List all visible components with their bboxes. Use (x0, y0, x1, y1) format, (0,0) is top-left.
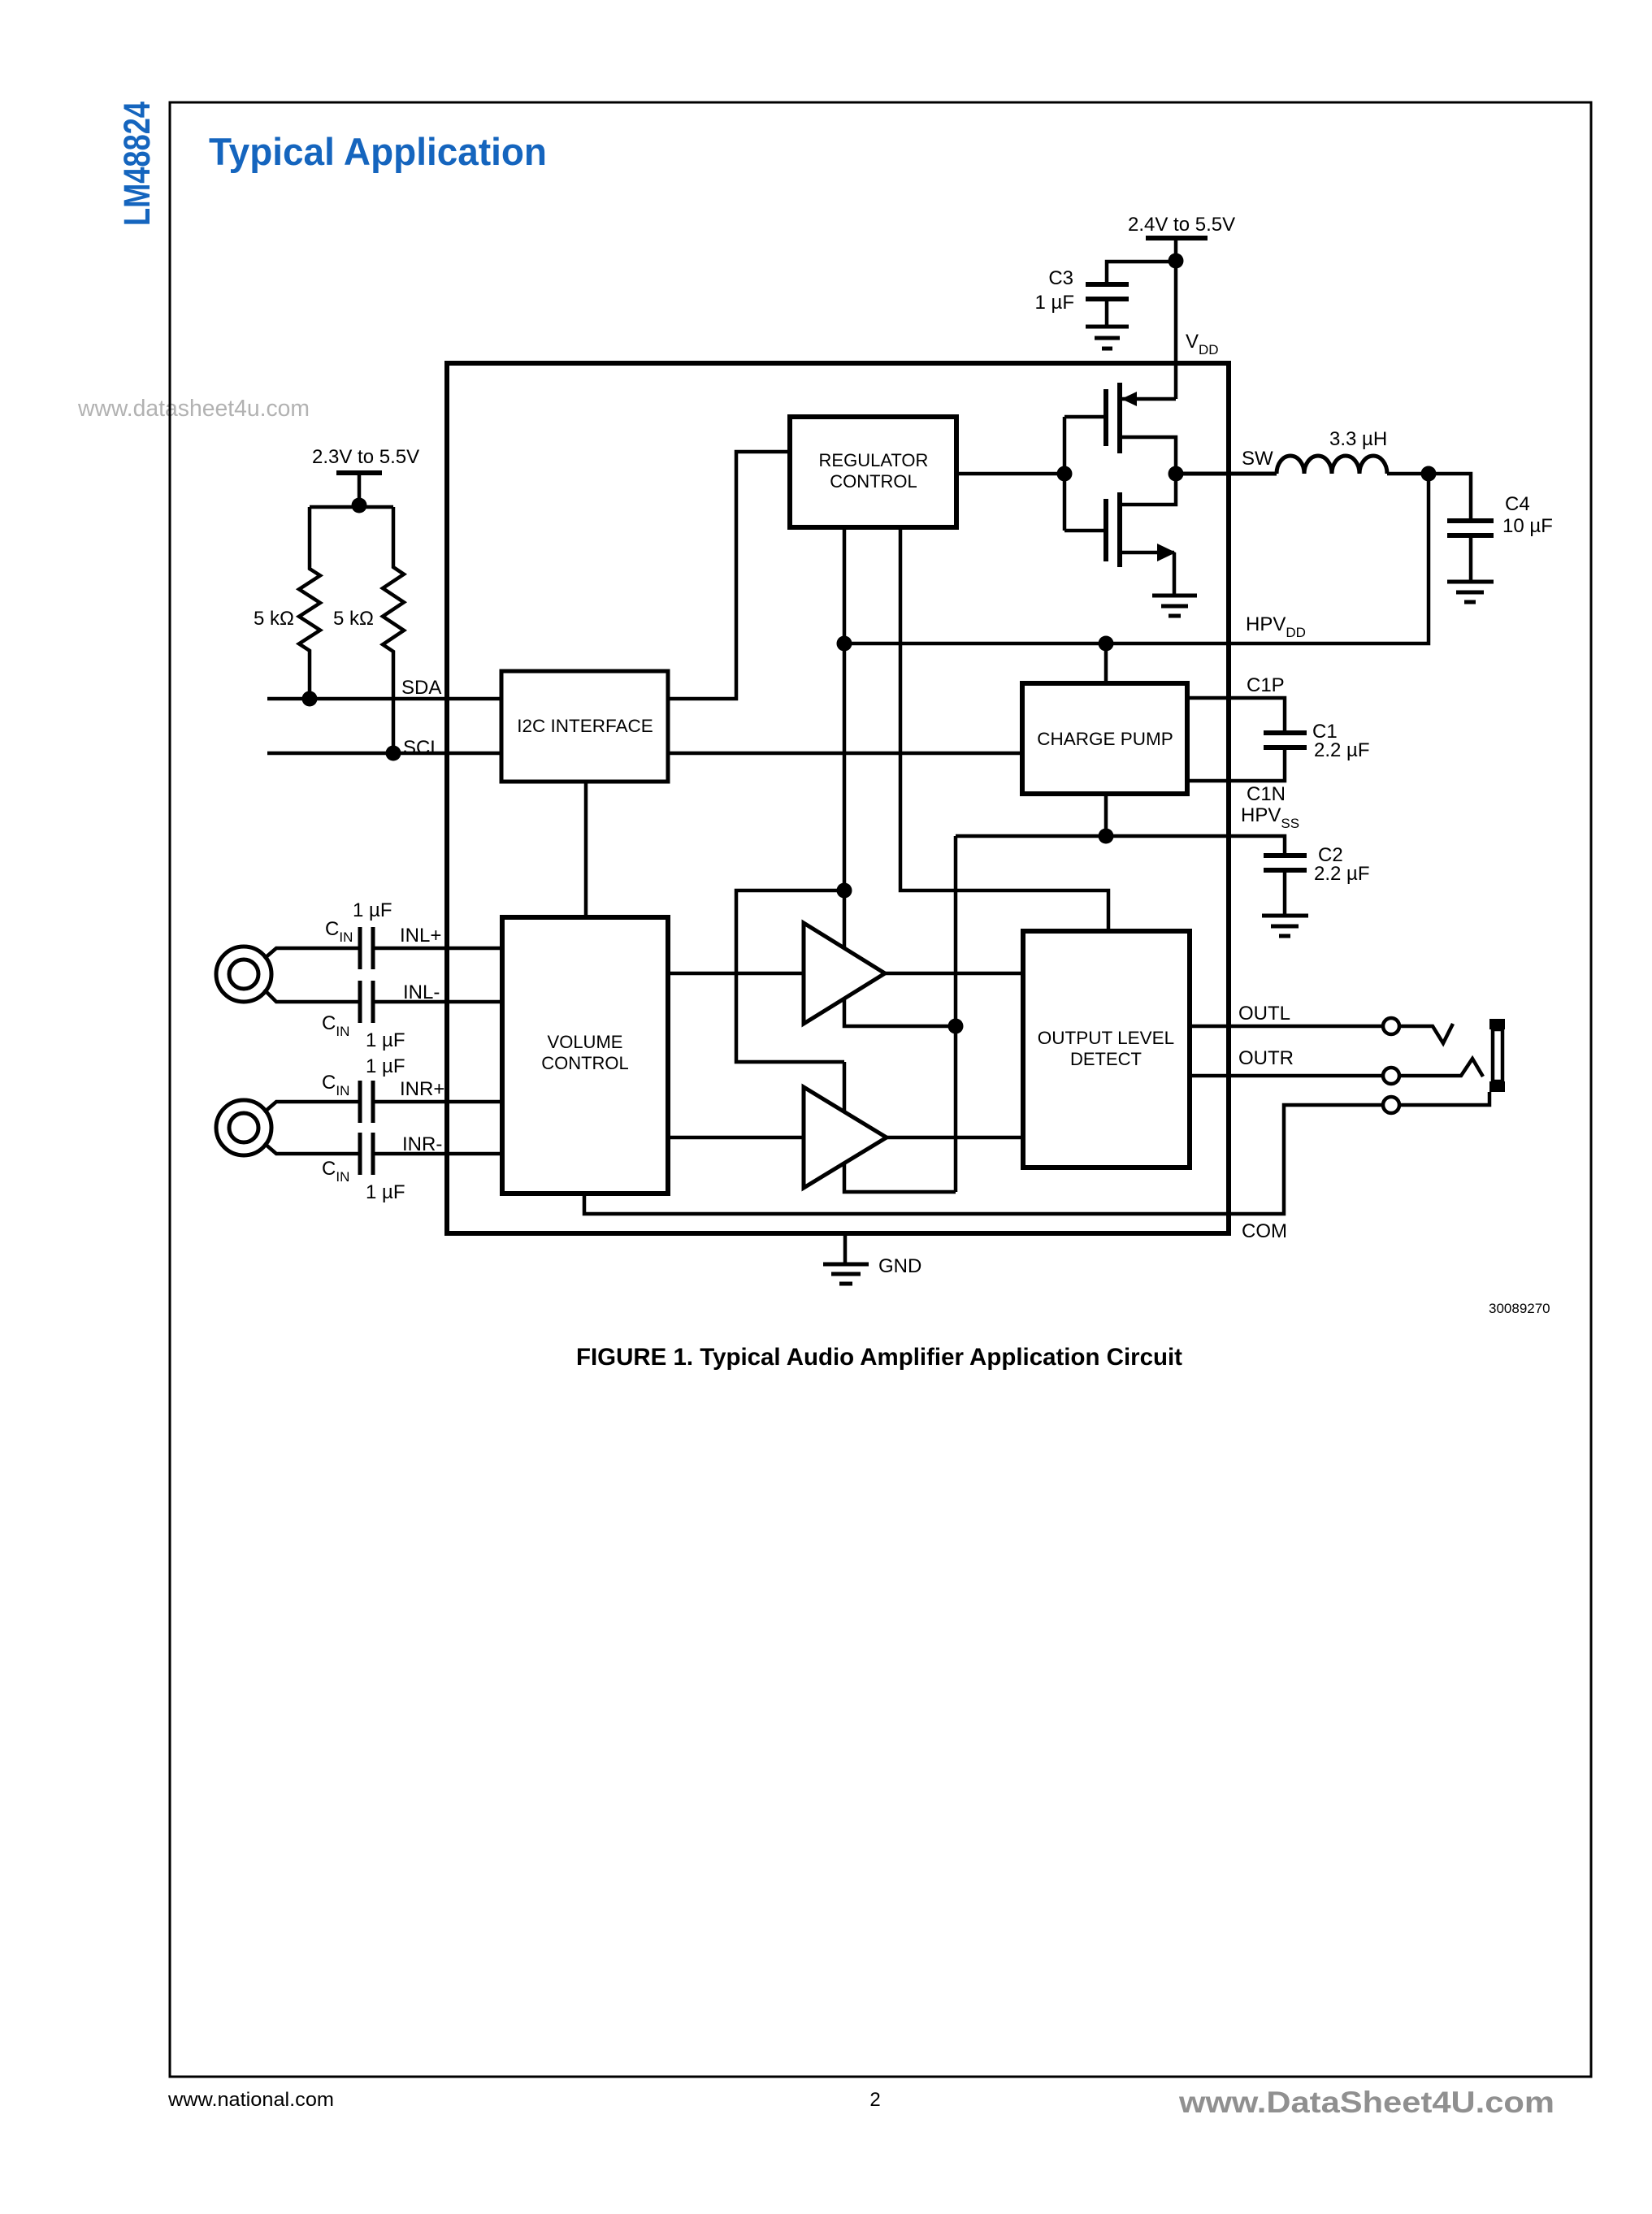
wire pullup top rail (310, 505, 393, 509)
svg-text:INR-: INR- (402, 1133, 442, 1155)
node SCL junction (386, 746, 401, 761)
svg-text:FIGURE 1. Typical Audio Amplif: FIGURE 1. Typical Audio Amplifier Applic… (576, 1344, 1182, 1371)
input connector L (216, 947, 271, 1002)
svg-text:2: 2 (869, 2089, 880, 2111)
transistor Q2 NMOS channel bar (1117, 492, 1122, 567)
svg-text:30089270: 30089270 (1489, 1301, 1550, 1316)
wire amp1 input (668, 972, 804, 976)
svg-text:CONTROL: CONTROL (830, 471, 917, 492)
wire Q2 drain lead (1120, 474, 1176, 505)
svg-text:5 kΩ: 5 kΩ (254, 608, 294, 630)
wire regulator left-bottom vertical (843, 527, 847, 890)
terminal OUTL circle (1383, 1018, 1399, 1034)
wire feedback left loop (736, 890, 844, 1062)
wire C1N (1187, 747, 1285, 781)
svg-text:INL-: INL- (403, 981, 440, 1003)
svg-text:VOLUME: VOLUME (548, 1032, 623, 1052)
node VDD junction (1169, 253, 1184, 269)
resistor R1 5k (299, 507, 320, 699)
svg-text:1 µF: 1 µF (366, 1181, 405, 1203)
jack J1 body (1493, 1029, 1502, 1081)
wire amp2 input (668, 1136, 804, 1140)
block REGULATOR CONTROL (790, 417, 956, 527)
wire INR+ external (264, 1102, 360, 1112)
svg-text:C1N: C1N (1247, 783, 1286, 805)
svg-text:OUTR: OUTR (1238, 1047, 1294, 1069)
node HPVDD junction (1421, 466, 1437, 482)
wire amp2 output (887, 1136, 1023, 1140)
jack J1 sleeve top block (1489, 1019, 1505, 1029)
svg-text:www.datasheet4u.com: www.datasheet4u.com (77, 396, 310, 422)
page border frame (170, 102, 1591, 2077)
jack J1 sleeve bottom block (1489, 1081, 1505, 1092)
op-amp A1 (804, 923, 885, 1024)
wire HPVSS left vertical (954, 836, 958, 1192)
svg-text:1 µF: 1 µF (366, 1029, 405, 1051)
op-amp A2 (804, 1087, 887, 1188)
wire INL+ internal (373, 947, 502, 951)
wire OUTL (1190, 1025, 1383, 1029)
wire gate connect vertical (1063, 417, 1067, 531)
capacitor C3 (1086, 284, 1129, 327)
svg-text:www.national.com: www.national.com (167, 2089, 334, 2111)
wire regulator output to gates (956, 472, 1064, 476)
wire Q1 gate lead (1064, 415, 1106, 419)
supply rail bar 2.3V (336, 470, 382, 475)
node mixer junction (837, 883, 852, 899)
svg-text:SCL: SCL (403, 737, 441, 759)
ground below C3 (1086, 327, 1129, 349)
terminal OUTR circle (1383, 1068, 1399, 1084)
svg-text:LM48824: LM48824 (116, 102, 158, 226)
resistor R2 5k (383, 507, 404, 753)
svg-text:GND: GND (878, 1255, 921, 1277)
wire SW out (1176, 472, 1277, 476)
svg-text:OUTPUT LEVEL: OUTPUT LEVEL (1038, 1028, 1174, 1048)
wire INR- external (264, 1143, 360, 1154)
wire INR- internal (373, 1152, 502, 1156)
wire Q1 drain lead (1120, 437, 1176, 474)
wire inductor to node (1387, 472, 1429, 476)
node switch output junction (1169, 466, 1184, 482)
wire regulator right-bottom vertical (900, 527, 1108, 931)
svg-text:2.2 µF: 2.2 µF (1314, 739, 1370, 761)
ground below Q2 (1152, 596, 1197, 616)
svg-text:CONTROL: CONTROL (541, 1053, 629, 1073)
svg-text:1 µF: 1 µF (366, 1055, 405, 1077)
transistor Q1 PMOS gate bar (1104, 389, 1108, 446)
wire amp1 output (885, 972, 1023, 976)
supply rail bar 2.4V (1146, 236, 1208, 240)
capacitor C4 (1447, 521, 1494, 582)
wire to C3 (1107, 262, 1176, 284)
wire GND stub (843, 1233, 848, 1264)
terminal COM circle (1383, 1097, 1399, 1113)
svg-text:2.3V to 5.5V: 2.3V to 5.5V (312, 446, 419, 468)
inductor L1 3.3uH (1277, 456, 1387, 474)
svg-text:C4: C4 (1505, 493, 1530, 515)
svg-text:C1P: C1P (1247, 674, 1285, 696)
svg-text:1 µF: 1 µF (1034, 292, 1074, 314)
svg-text:DETECT: DETECT (1070, 1049, 1142, 1069)
wire HPVDD feedback (844, 474, 1429, 643)
wire Q1 source lead with body arrow (1120, 392, 1176, 406)
wire I2C to regulator (668, 452, 790, 699)
wire I2C to volume control (584, 782, 588, 917)
node gate drive junction (1057, 466, 1073, 482)
wire C1P (1187, 698, 1285, 733)
ground GND (823, 1264, 869, 1284)
svg-text:3.3 µH: 3.3 µH (1329, 428, 1387, 450)
svg-text:www.DataSheet4U.com: www.DataSheet4U.com (1178, 2086, 1554, 2119)
wire 2.3V stub (358, 473, 362, 507)
wire VDD vertical (1174, 238, 1178, 399)
capacitor CIN3 (360, 1081, 373, 1123)
node HPVDD-chargepump junction (1099, 636, 1114, 652)
wire COM (584, 1092, 1489, 1214)
wire OUTR to jack ring switch (1399, 1059, 1483, 1077)
block I2C INTERFACE (501, 671, 668, 782)
capacitor CIN4 (360, 1133, 373, 1175)
svg-text:10 µF: 10 µF (1502, 515, 1553, 537)
svg-text:5 kΩ: 5 kΩ (333, 608, 374, 630)
wire OUTR (1190, 1074, 1383, 1078)
input connector R (216, 1100, 271, 1155)
svg-text:CHARGE PUMP: CHARGE PUMP (1037, 729, 1173, 749)
wire Q2 gate lead (1064, 529, 1106, 533)
block VOLUME CONTROL (502, 917, 668, 1194)
svg-text:REGULATOR: REGULATOR (819, 450, 929, 470)
wire INR+ internal (373, 1100, 502, 1104)
wire HPVSS (956, 836, 1285, 856)
svg-text:I2C INTERFACE: I2C INTERFACE (517, 716, 653, 736)
ground below C4 (1447, 582, 1494, 602)
block OUTPUT LEVEL DETECT (1023, 931, 1190, 1168)
svg-text:C3: C3 (1048, 267, 1073, 289)
svg-text:SDA: SDA (401, 677, 441, 699)
wire INL+ external (264, 948, 360, 959)
svg-text:INR+: INR+ (400, 1078, 444, 1100)
capacitor C1 (1264, 733, 1307, 747)
svg-text:Typical Application: Typical Application (209, 130, 547, 173)
node HPVDD-regulator junction (837, 636, 852, 652)
capacitor CIN1 (360, 927, 373, 969)
block CHARGE PUMP (1022, 683, 1187, 794)
node SDA junction (302, 691, 318, 707)
transistor Q2 NMOS gate bar (1104, 499, 1108, 561)
wire INL- external (264, 990, 360, 1002)
wire charge pump top (1104, 643, 1108, 683)
wire SDA external (267, 697, 501, 701)
wire through amp2 down (844, 1062, 956, 1192)
wire OUTL to jack tip switch (1399, 1024, 1453, 1043)
capacitor CIN2 (360, 981, 373, 1023)
node pullup junction (352, 498, 367, 513)
transistor Q1 PMOS channel bar (1117, 383, 1122, 453)
svg-text:INL+: INL+ (400, 925, 441, 947)
wire to C4 (1429, 474, 1471, 521)
node HPVSS junction (1099, 829, 1114, 844)
wire Q2 source lead with body arrow (1120, 544, 1176, 596)
wire charge pump bottom (1104, 794, 1108, 836)
IC boundary box (447, 363, 1229, 1233)
wire through amp1 down (844, 890, 956, 1026)
svg-text:1 µF: 1 µF (353, 899, 392, 921)
svg-text:2.2 µF: 2.2 µF (1314, 863, 1370, 885)
wire INL- internal (373, 1000, 502, 1004)
ground below C2 (1262, 916, 1308, 936)
wire SCL external (267, 752, 1022, 756)
node HPVSS loop junction (948, 1019, 964, 1034)
svg-text:SW: SW (1242, 448, 1273, 470)
svg-text:COM: COM (1242, 1220, 1287, 1242)
svg-text:OUTL: OUTL (1238, 1003, 1290, 1025)
capacitor C2 (1264, 856, 1307, 916)
svg-text:2.4V to 5.5V: 2.4V to 5.5V (1128, 214, 1235, 236)
